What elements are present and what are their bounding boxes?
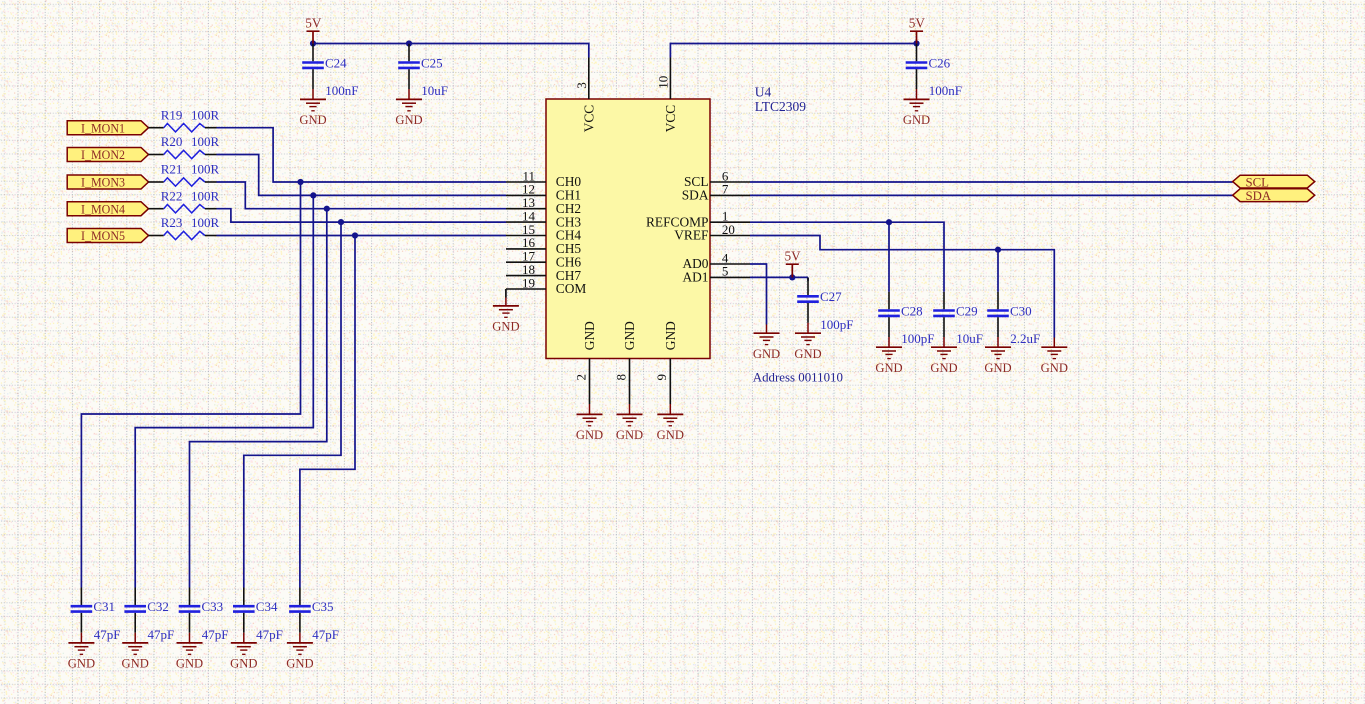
resistor R21 100R xyxy=(149,162,220,187)
wire SCL xyxy=(750,181,1233,183)
svg-text:VCC: VCC xyxy=(663,105,678,133)
svg-text:19: 19 xyxy=(522,275,535,290)
port I_MON1 xyxy=(67,120,148,135)
svg-text:47pF: 47pF xyxy=(148,627,175,642)
wire CH0 to C31 xyxy=(81,182,300,588)
ground at C24 xyxy=(299,89,326,127)
port I_MON2 xyxy=(67,147,148,162)
pin 8 GND xyxy=(613,321,637,404)
svg-text:7: 7 xyxy=(722,182,729,197)
ground at pin 8 xyxy=(616,404,643,442)
wire CH1 to C32 xyxy=(135,195,313,587)
pin 12 CH1 xyxy=(506,182,581,203)
ground at C25 xyxy=(395,89,422,127)
svg-text:5V: 5V xyxy=(909,16,926,31)
pin 2 GND xyxy=(573,321,597,404)
svg-text:I_MON5: I_MON5 xyxy=(81,228,125,243)
junction at 5V AD1 xyxy=(789,274,795,280)
wire REFCOMP to C29 xyxy=(750,222,944,292)
junction node CH4 xyxy=(352,232,358,238)
port SCL xyxy=(1233,175,1315,189)
svg-text:100pF: 100pF xyxy=(901,331,934,346)
ground at COM xyxy=(492,298,519,334)
junction node CH0 xyxy=(297,179,303,185)
svg-text:GND: GND xyxy=(616,428,643,442)
wire drop to C28 xyxy=(888,222,890,292)
svg-text:VCC: VCC xyxy=(581,105,596,133)
wire CH4 to C35 xyxy=(300,236,355,588)
svg-text:C34: C34 xyxy=(256,599,278,614)
svg-text:GND: GND xyxy=(122,657,149,671)
svg-text:10: 10 xyxy=(656,76,671,89)
capacitor C35 47pF xyxy=(289,588,339,642)
svg-text:GND: GND xyxy=(576,428,603,442)
pin 9 GND xyxy=(654,321,678,404)
ground at C33 xyxy=(176,633,203,671)
svg-text:47pF: 47pF xyxy=(312,627,339,642)
port I_MON4 xyxy=(67,201,148,216)
wire R19 to CH0 xyxy=(217,128,507,182)
svg-text:8: 8 xyxy=(613,374,628,381)
resistor R23 100R xyxy=(149,215,220,240)
svg-text:GND: GND xyxy=(903,113,930,127)
wire AD0 to ground xyxy=(750,264,767,325)
capacitor C32 47pF xyxy=(124,588,174,642)
pin 10 VCC xyxy=(656,58,678,133)
wire 5V rail to VCC pin 3 xyxy=(313,44,589,58)
ground at C34 xyxy=(230,633,257,671)
pin 4 AD0 xyxy=(682,250,750,271)
junction node CH3 xyxy=(338,219,344,225)
svg-text:2.2uF: 2.2uF xyxy=(1010,331,1040,346)
capacitor C31 47pF xyxy=(71,588,121,642)
junction at C25 xyxy=(406,40,412,46)
svg-text:C25: C25 xyxy=(421,55,443,70)
power port 5V (left) xyxy=(305,16,322,44)
pin 3 VCC xyxy=(574,58,596,133)
pin 20 VREF xyxy=(674,222,750,243)
svg-text:100R: 100R xyxy=(191,107,220,122)
wire R23 to CH4 xyxy=(217,235,507,237)
svg-text:47pF: 47pF xyxy=(202,627,229,642)
junction at C24 xyxy=(310,40,316,46)
LTC2309 value text xyxy=(755,99,807,114)
ground at C35 xyxy=(286,633,313,671)
port I_MON5 xyxy=(67,228,148,243)
port SDA xyxy=(1233,189,1315,203)
svg-text:2: 2 xyxy=(573,374,588,381)
svg-text:9: 9 xyxy=(654,374,669,381)
svg-text:3: 3 xyxy=(574,82,589,89)
wire C27 drop xyxy=(807,277,809,281)
pin 19 COM xyxy=(506,275,586,296)
pin 14 CH3 xyxy=(506,208,581,229)
ground at VREF rail end xyxy=(1041,338,1068,375)
pin 18 CH7 xyxy=(506,262,581,283)
svg-text:100R: 100R xyxy=(191,134,220,149)
svg-text:GND: GND xyxy=(657,428,684,442)
capacitor C25 10uF xyxy=(398,44,448,98)
svg-text:U4: U4 xyxy=(755,84,772,99)
svg-text:GND: GND xyxy=(299,113,326,127)
junction at C30 xyxy=(995,247,1001,253)
svg-text:100R: 100R xyxy=(191,162,220,177)
U4 designator text xyxy=(755,84,772,99)
svg-text:R20: R20 xyxy=(161,134,183,149)
svg-text:I_MON1: I_MON1 xyxy=(81,120,125,135)
svg-text:GND: GND xyxy=(286,657,313,671)
ground at C28 xyxy=(875,337,902,375)
svg-text:SDA: SDA xyxy=(682,188,709,203)
svg-text:C26: C26 xyxy=(929,55,951,70)
svg-text:47pF: 47pF xyxy=(256,627,283,642)
svg-text:R19: R19 xyxy=(161,107,183,122)
wire COM to ground xyxy=(505,289,507,298)
svg-text:20: 20 xyxy=(722,222,735,237)
svg-text:5: 5 xyxy=(722,264,729,279)
svg-text:C31: C31 xyxy=(93,599,115,614)
capacitor C28 100pF xyxy=(878,292,934,346)
svg-text:100R: 100R xyxy=(191,188,220,203)
svg-text:Address 0011010: Address 0011010 xyxy=(753,370,843,384)
ground at C31 xyxy=(68,633,95,671)
wire SDA xyxy=(750,194,1233,196)
svg-text:I_MON4: I_MON4 xyxy=(81,201,125,216)
svg-text:GND: GND xyxy=(875,361,902,375)
svg-text:LTC2309: LTC2309 xyxy=(755,99,807,114)
svg-text:100nF: 100nF xyxy=(929,83,962,98)
svg-text:GND: GND xyxy=(492,320,519,334)
svg-text:SDA: SDA xyxy=(1246,189,1272,203)
svg-text:C29: C29 xyxy=(956,303,978,318)
ground at C26 xyxy=(903,89,930,127)
svg-text:10uF: 10uF xyxy=(421,83,448,98)
IC U4 LTC2309 body xyxy=(546,99,710,359)
svg-text:GND: GND xyxy=(395,113,422,127)
svg-text:C33: C33 xyxy=(202,599,224,614)
wire VCC pin 10 to 5V rail xyxy=(670,44,916,58)
pin 5 AD1 xyxy=(682,264,750,285)
svg-text:SCL: SCL xyxy=(1246,175,1270,189)
port I_MON3 xyxy=(67,175,148,190)
svg-text:C35: C35 xyxy=(312,599,334,614)
svg-text:GND: GND xyxy=(176,657,203,671)
svg-text:GND: GND xyxy=(1041,361,1068,375)
capacitor C26 100nF xyxy=(906,44,962,98)
power port 5V (AD1) xyxy=(785,249,802,278)
svg-text:COM: COM xyxy=(556,281,587,296)
capacitor C33 47pF xyxy=(179,588,229,642)
capacitor C27 100pF xyxy=(797,278,853,332)
ground at C32 xyxy=(122,633,149,671)
svg-text:I_MON3: I_MON3 xyxy=(81,175,125,190)
junction at C26 xyxy=(913,40,919,46)
pin 16 CH5 xyxy=(506,235,581,256)
svg-text:C32: C32 xyxy=(147,599,169,614)
pin 15 CH4 xyxy=(506,222,581,243)
resistor R22 100R xyxy=(149,188,220,213)
resistor R20 100R xyxy=(149,134,220,159)
ground at pin 2 xyxy=(576,404,603,442)
svg-text:C24: C24 xyxy=(325,55,347,70)
capacitor C29 10uF xyxy=(933,292,983,346)
svg-text:GND: GND xyxy=(984,361,1011,375)
wire CH3 to C34 xyxy=(244,222,341,587)
svg-text:GND: GND xyxy=(794,347,821,361)
svg-text:VREF: VREF xyxy=(674,228,708,243)
svg-text:GND: GND xyxy=(622,321,637,350)
wire AD1 to C27 xyxy=(750,276,808,278)
svg-text:GND: GND xyxy=(68,657,95,671)
svg-text:R23: R23 xyxy=(161,215,183,230)
pin 1 REFCOMP xyxy=(646,209,750,230)
svg-text:AD1: AD1 xyxy=(682,270,708,285)
capacitor C30 2.2uF xyxy=(987,292,1040,346)
pin 11 CH0 xyxy=(506,168,581,189)
svg-text:GND: GND xyxy=(582,321,597,350)
resistor R19 100R xyxy=(149,107,220,131)
wire drop to C30 xyxy=(997,250,999,292)
svg-text:5V: 5V xyxy=(305,16,322,31)
svg-text:GND: GND xyxy=(663,321,678,350)
svg-text:10uF: 10uF xyxy=(956,331,983,346)
svg-text:C30: C30 xyxy=(1010,303,1032,318)
svg-text:100R: 100R xyxy=(191,215,220,230)
ground at C29 xyxy=(930,337,957,375)
svg-text:GND: GND xyxy=(930,361,957,375)
svg-text:GND: GND xyxy=(230,657,257,671)
wire VREF rail xyxy=(750,236,1054,338)
svg-text:R21: R21 xyxy=(161,162,183,177)
pin 13 CH2 xyxy=(506,195,581,216)
wire R22 to CH3 xyxy=(217,209,507,222)
pin 17 CH6 xyxy=(506,249,581,270)
svg-text:5V: 5V xyxy=(785,249,802,264)
svg-text:R22: R22 xyxy=(161,188,183,203)
ground at pin 9 xyxy=(657,404,684,442)
pin 7 SDA xyxy=(682,182,750,203)
wire R21 to CH2 xyxy=(217,182,507,209)
svg-text:I_MON2: I_MON2 xyxy=(81,147,125,162)
ground at C27 xyxy=(794,323,821,361)
svg-text:47pF: 47pF xyxy=(94,627,121,642)
svg-text:C27: C27 xyxy=(820,289,842,304)
junction at C28 xyxy=(886,219,892,225)
wire CH2 to C33 xyxy=(190,209,327,588)
svg-text:100nF: 100nF xyxy=(325,83,358,98)
power port 5V (right) xyxy=(909,16,926,44)
capacitor C24 100nF xyxy=(302,44,358,98)
ground at C30 xyxy=(984,337,1011,375)
text Address 0011010 xyxy=(753,370,843,384)
svg-text:100pF: 100pF xyxy=(820,317,853,332)
wire R20 to CH1 xyxy=(217,155,507,196)
svg-text:C28: C28 xyxy=(901,303,923,318)
pin 6 SCL xyxy=(684,168,750,189)
capacitor C34 47pF xyxy=(233,588,283,642)
svg-text:GND: GND xyxy=(753,347,780,361)
junction node CH1 xyxy=(310,192,316,198)
ground at AD0 xyxy=(753,325,780,361)
junction node CH2 xyxy=(324,206,330,212)
